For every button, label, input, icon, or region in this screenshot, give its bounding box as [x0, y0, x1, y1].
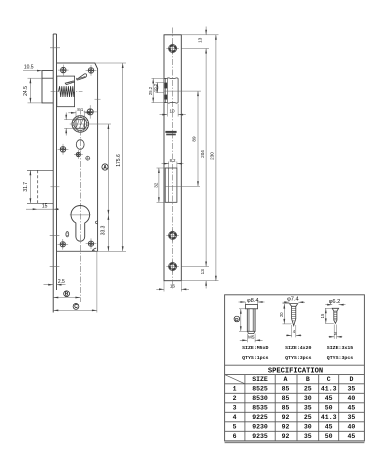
small oval near cylinder: [66, 232, 69, 237]
left view: lock body - forend plate: [52, 34, 54, 313]
middle plate screw hole: [166, 234, 179, 236]
svg-text:25: 25: [304, 386, 312, 393]
svg-text:25: 25: [304, 414, 312, 421]
specification table grid: [225, 364, 365, 366]
dim 25.2: [152, 77, 165, 79]
deadbolt cutout: [165, 168, 177, 202]
svg-text:B: B: [306, 376, 310, 383]
svg-text:41.3: 41.3: [321, 414, 337, 421]
svg-text:50: 50: [325, 405, 333, 412]
svg-text:SPECIFICATION: SPECIFICATION: [268, 367, 323, 375]
latch bolt protruding from forend: [42, 71, 53, 103]
svg-text:13: 13: [200, 269, 205, 275]
svg-text:M5: M5: [248, 335, 255, 340]
svg-text:QTYS:1pcs: QTYS:1pcs: [242, 355, 268, 361]
screw 1 dim D length: [239, 308, 245, 310]
svg-text:35: 35: [347, 414, 355, 421]
svg-text:8.2: 8.2: [170, 158, 176, 163]
mid-left case screw: [60, 147, 66, 153]
svg-text:33.3: 33.3: [101, 225, 107, 235]
face plate outline: [164, 35, 181, 281]
latch cutout center ext line: [164, 90, 201, 92]
latch spring: [59, 86, 75, 97]
svg-text:230: 230: [210, 152, 215, 160]
svg-text:9225: 9225: [252, 414, 268, 421]
screw 3 dim 3: [333, 325, 335, 339]
deadbolt cutout center ext: [165, 185, 200, 187]
svg-text:3: 3: [233, 405, 237, 412]
tick on case right edge: [95, 98, 101, 100]
small screw below follower: [76, 152, 80, 156]
svg-text:45: 45: [325, 395, 333, 402]
svg-text:20: 20: [279, 312, 284, 317]
latch lever pointer: [77, 74, 87, 80]
svg-text:1: 1: [233, 386, 237, 393]
vertical centerline of lock: [79, 109, 81, 303]
dim 10.2: [156, 82, 165, 84]
svg-text:QTYS:3pcs: QTYS:3pcs: [327, 355, 353, 361]
ext lines right side: [181, 34, 218, 36]
hook mark near bottom-right screw: [92, 248, 96, 251]
svg-text:15: 15: [42, 203, 48, 209]
svg-text:92: 92: [282, 414, 290, 421]
dim 32 cutout height: [157, 167, 166, 169]
spring box in case: [57, 76, 75, 107]
svg-text:45: 45: [325, 424, 333, 431]
chained dim A and 33.3: [107, 124, 109, 251]
svg-text:35: 35: [347, 386, 355, 393]
svg-text:41.3: 41.3: [321, 386, 337, 393]
dim 175.6 case height: [57, 62, 127, 64]
bottom-right case screw: [88, 241, 93, 246]
svg-text:10.5: 10.5: [24, 65, 34, 71]
svg-text:5: 5: [233, 424, 237, 431]
table header diagonal: [225, 375, 245, 384]
svg-text:40: 40: [347, 424, 355, 431]
svg-text:85: 85: [282, 395, 290, 402]
svg-text:SIZE:3x15: SIZE:3x15: [327, 345, 353, 351]
latch link piece: [65, 81, 74, 85]
svg-text:φ8.4: φ8.4: [247, 298, 259, 304]
lock case outline: [57, 63, 98, 251]
follower center cross lines: [70, 123, 111, 125]
top-right case screw: [88, 68, 94, 74]
svg-text:SIZE:M5xD: SIZE:M5xD: [242, 345, 268, 351]
top plate screw hole: [166, 48, 179, 50]
svg-text:D: D: [349, 376, 353, 383]
svg-text:6: 6: [233, 433, 237, 440]
svg-text:89: 89: [192, 136, 197, 142]
svg-text:24.5: 24.5: [23, 86, 29, 96]
details box frame: [225, 295, 365, 441]
square dim 8.1 horizontal: [75, 111, 77, 120]
svg-text:4: 4: [233, 414, 237, 421]
svg-text:A: A: [103, 165, 107, 171]
dim 89: [197, 91, 199, 186]
screw right of follower: [87, 109, 93, 115]
svg-text:45: 45: [347, 405, 355, 412]
svg-text:204: 204: [200, 150, 205, 158]
svg-text:8530: 8530: [252, 395, 268, 402]
deadbolt (thrown, phantom) lower left: [27, 169, 53, 171]
bottom-left case screw: [60, 242, 65, 247]
dim 16 plate width: [163, 281, 165, 292]
dim 10 below latch cutout: [166, 104, 168, 117]
svg-text:45: 45: [347, 433, 355, 440]
dim 204: [205, 49, 207, 267]
svg-text:φ7.4: φ7.4: [287, 297, 299, 303]
face plate centerline: [172, 28, 174, 289]
svg-text:SIZE: SIZE: [252, 376, 268, 383]
top-left case screw: [61, 67, 67, 73]
svg-text:92: 92: [282, 424, 290, 431]
svg-text:175.6: 175.6: [116, 154, 122, 167]
small hole with cross: [86, 156, 90, 160]
svg-text:85: 85: [282, 386, 290, 393]
svg-text:8535: 8535: [252, 405, 268, 412]
svg-text:10: 10: [169, 109, 175, 114]
svg-text:85: 85: [282, 405, 290, 412]
dim B backset: [53, 297, 80, 299]
dim 230: [215, 35, 217, 281]
screw 2 dim 20: [283, 303, 290, 305]
latch bolt dark sections: [165, 83, 168, 89]
bottom plate screw hole: [166, 266, 179, 268]
forend screw hole center ticks: [50, 47, 60, 49]
svg-text:10.2: 10.2: [153, 83, 158, 92]
svg-text:φ6.2: φ6.2: [329, 299, 341, 305]
notch on case right edge: [96, 221, 98, 224]
circled A label: [102, 164, 108, 170]
svg-text:9230: 9230: [252, 424, 268, 431]
svg-text:9235: 9235: [252, 433, 268, 440]
dim 24.5 latch height: [28, 77, 43, 79]
svg-text:31.7: 31.7: [23, 182, 29, 192]
dim 31.7 deadbolt height: [29, 170, 31, 203]
latch centerline: [51, 91, 83, 93]
svg-text:16: 16: [170, 284, 176, 289]
svg-text:15: 15: [320, 313, 325, 318]
cylinder center tick: [70, 214, 91, 216]
screw 3 dim 15: [325, 307, 332, 309]
dim 13 top: [205, 27, 207, 35]
svg-text:D: D: [235, 317, 239, 323]
svg-text:35: 35: [304, 433, 312, 440]
svg-text:A: A: [284, 376, 288, 383]
svg-text:30: 30: [304, 424, 312, 431]
oval hole below follower: [76, 140, 84, 150]
euro profile cylinder hole: [71, 206, 90, 242]
svg-text:40: 40: [347, 395, 355, 402]
svg-text:25.2: 25.2: [148, 86, 153, 95]
dim 13 bottom: [205, 281, 207, 289]
square dim vertical: [64, 119, 75, 121]
svg-text:C: C: [74, 304, 78, 310]
dim C case depth: [96, 251, 98, 312]
svg-text:13: 13: [198, 37, 203, 43]
svg-text:50: 50: [325, 433, 333, 440]
svg-text:B: B: [65, 292, 69, 298]
deadbolt center tick: [50, 186, 59, 188]
svg-text:2: 2: [233, 395, 237, 402]
box bottom outer line: [225, 442, 365, 444]
svg-text:8525: 8525: [252, 386, 268, 393]
svg-text:SIZE:4x20: SIZE:4x20: [285, 345, 311, 351]
svg-text:92: 92: [282, 433, 290, 440]
follower hub with square spindle hole: [72, 116, 89, 133]
svg-text:35: 35: [304, 405, 312, 412]
svg-text:QTYS:3pcs: QTYS:3pcs: [285, 355, 311, 361]
brand stamp: [165, 131, 176, 133]
svg-text:32: 32: [153, 182, 158, 188]
svg-text:C: C: [327, 376, 331, 383]
svg-text:30: 30: [304, 395, 312, 402]
dim 8.2 cutout width: [168, 162, 170, 169]
svg-text:8.1: 8.1: [77, 107, 83, 112]
latch cutout: [164, 78, 178, 103]
